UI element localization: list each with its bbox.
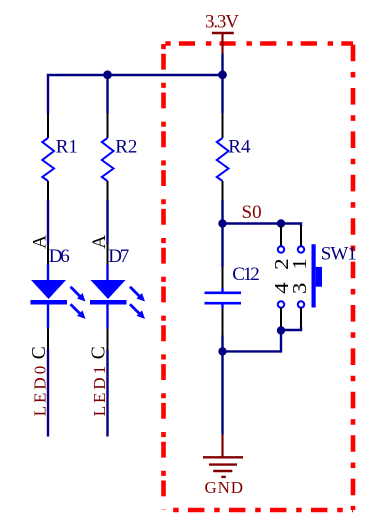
wire bus to R2 (106, 75, 108, 114)
switch SW1 pin 1 (300, 226, 302, 247)
junction S0 at switch pin 2 (277, 219, 285, 227)
junction on bus at R4 branch (218, 70, 227, 79)
junction C12/switch/GND (218, 347, 226, 355)
wire S0 horizontal (223, 224, 302, 227)
svg-text:R4: R4 (228, 137, 251, 158)
junction S0 at R4 (218, 219, 226, 227)
svg-text:C: C (88, 346, 109, 359)
svg-text:R2: R2 (115, 137, 137, 158)
diode D7 anode pin (107, 245, 109, 265)
resistor R4 (217, 138, 229, 181)
junction on bus at R2 branch (103, 70, 112, 79)
resistor R4 pin top (222, 114, 224, 139)
svg-text:SW1: SW1 (321, 244, 357, 265)
svg-text:3: 3 (289, 283, 311, 295)
svg-text:R1: R1 (56, 137, 78, 158)
switch SW1 pin 3 (300, 308, 302, 327)
capacitor C12 pin bottom (222, 308, 224, 335)
resistor R1 (42, 138, 54, 181)
diode D7 cathode pin (107, 329, 109, 350)
LED D6 arrow 2 (71, 304, 86, 319)
svg-text:1: 1 (289, 259, 311, 270)
capacitor C12 pin top (222, 267, 224, 290)
ground symbol (203, 435, 243, 477)
svg-text:C12: C12 (232, 264, 259, 285)
switch SW1 pin 4 (280, 308, 282, 330)
boundary box (red dash-dot) (164, 44, 354, 511)
svg-text:D7: D7 (108, 246, 129, 267)
wire from power to bus (221, 54, 223, 76)
wire bus to R4 (221, 75, 223, 114)
svg-text:S0: S0 (242, 202, 262, 223)
wire R2 to D7 (106, 200, 108, 245)
svg-text:LED0: LED0 (31, 366, 50, 417)
switch SW1 pin 2 (280, 226, 282, 247)
diode D6 cathode pin (47, 329, 49, 350)
svg-text:3.3V: 3.3V (205, 12, 239, 33)
svg-text:C: C (29, 346, 50, 359)
svg-text:GND: GND (205, 478, 244, 497)
wire C12 to GND (221, 336, 223, 435)
switch contact circle pin 1 (298, 246, 304, 252)
svg-text:LED1: LED1 (90, 366, 109, 417)
svg-text:D6: D6 (49, 246, 70, 267)
LED D6 (31, 265, 68, 329)
switch button cap (316, 267, 322, 287)
LED D6 arrow 1 (71, 287, 86, 302)
LED D7 (90, 265, 127, 329)
wire net LED0 (47, 350, 49, 437)
wire pin3 to pin4 (281, 327, 301, 330)
power symbol 3.3V (212, 33, 234, 54)
wire R1 to D6 (47, 200, 49, 245)
resistor R4 pin bottom (222, 181, 224, 200)
switch contact circle pin 2 (278, 246, 284, 252)
junction below switch (277, 326, 285, 334)
wire switch to C12 bottom (223, 330, 282, 351)
wire net LED1 (106, 350, 108, 437)
LED D7 arrow 1 (130, 287, 145, 302)
resistor R1 pin top (47, 114, 49, 139)
resistor R2 pin top (107, 114, 109, 139)
capacitor C12 (205, 288, 242, 308)
switch contact circle pin 4 (278, 301, 284, 307)
switch actuator bar (312, 244, 316, 307)
resistor R2 (102, 138, 114, 181)
LED D7 arrow 2 (130, 304, 145, 319)
wire S0 to C12 (221, 224, 223, 268)
resistor R2 pin bottom (107, 181, 109, 200)
wire R4 to S0 node (221, 200, 223, 224)
switch contact circle pin 3 (298, 301, 304, 307)
wire top bus (48, 75, 223, 114)
diode D6 anode pin (47, 245, 49, 265)
resistor R1 pin bottom (47, 181, 49, 200)
